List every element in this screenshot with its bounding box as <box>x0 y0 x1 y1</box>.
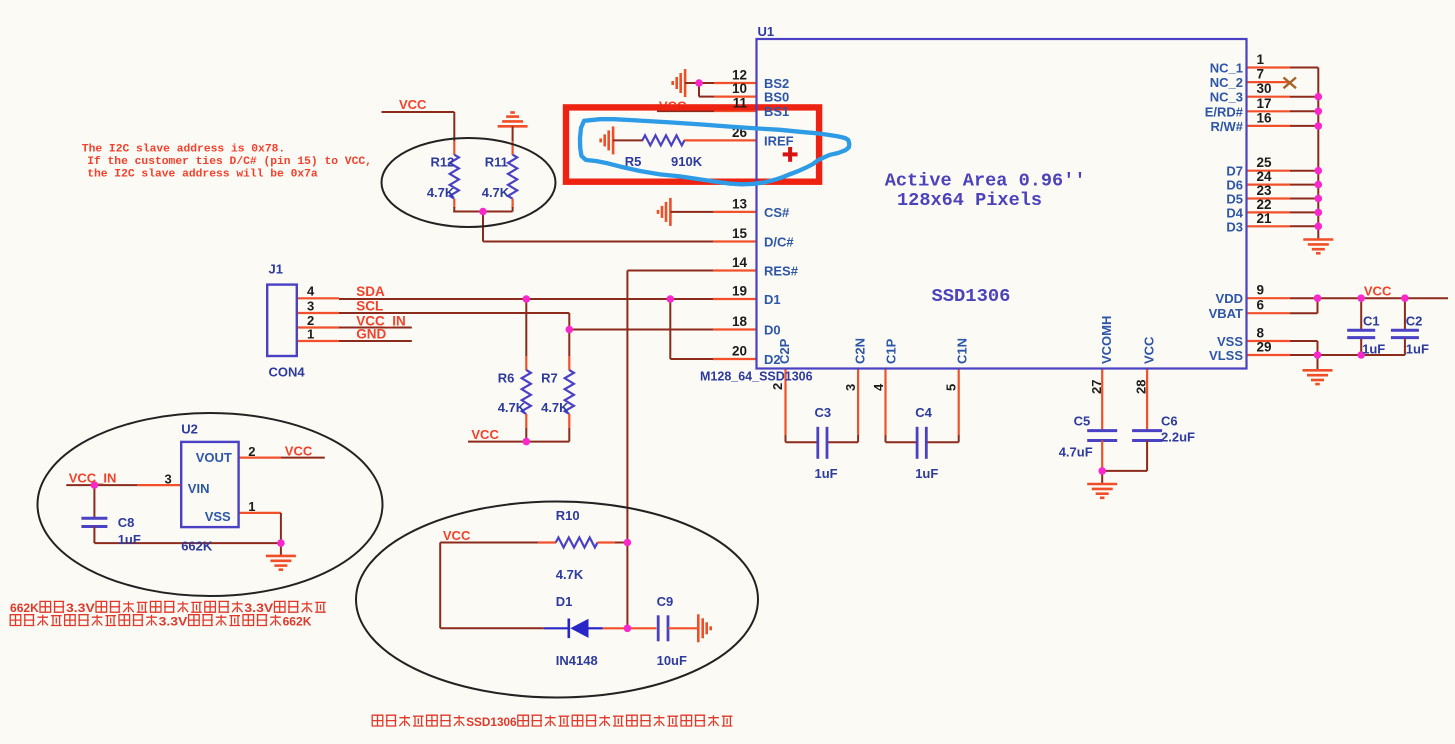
svg-text:VDD: VDD <box>1216 291 1243 306</box>
svg-text:NC_2: NC_2 <box>1210 75 1243 90</box>
svg-text:E/RD#: E/RD# <box>1205 104 1244 119</box>
svg-text:BS1: BS1 <box>764 104 789 119</box>
svg-text:J1: J1 <box>269 262 283 277</box>
svg-text:R/W#: R/W# <box>1211 119 1244 134</box>
svg-text:662K: 662K <box>10 601 39 615</box>
svg-text:RES#: RES# <box>764 264 799 279</box>
svg-text:IREF: IREF <box>764 133 794 148</box>
svg-text:VBAT: VBAT <box>1209 306 1243 321</box>
svg-text:3: 3 <box>165 472 172 487</box>
svg-text:C5: C5 <box>1074 414 1091 429</box>
svg-text:19: 19 <box>732 284 747 299</box>
svg-text:VCC: VCC <box>1364 284 1392 299</box>
svg-text:D/C#: D/C# <box>764 235 794 250</box>
svg-text:C1N: C1N <box>955 338 970 364</box>
svg-text:4.7K: 4.7K <box>482 185 510 200</box>
svg-text:M128_64_SSD1306: M128_64_SSD1306 <box>700 370 813 384</box>
svg-text:VCC: VCC <box>399 97 427 112</box>
svg-text:VLSS: VLSS <box>1209 348 1243 363</box>
svg-text:C1: C1 <box>1363 314 1380 329</box>
svg-text:21: 21 <box>1257 211 1273 226</box>
svg-text:the I2C slave address will be: the I2C slave address will be 0x7a <box>87 169 318 181</box>
svg-text:IN4148: IN4148 <box>556 653 598 668</box>
svg-text:D0: D0 <box>764 323 781 338</box>
svg-text:GND: GND <box>356 327 386 342</box>
svg-text:C2P: C2P <box>777 338 792 364</box>
svg-text:VCOMH: VCOMH <box>1099 316 1114 364</box>
svg-text:D3: D3 <box>1226 219 1243 234</box>
svg-text:CON4: CON4 <box>269 365 306 380</box>
svg-text:D6: D6 <box>1226 178 1243 193</box>
svg-text:6: 6 <box>1257 298 1265 313</box>
svg-text:VSS: VSS <box>205 509 231 524</box>
svg-text:D1: D1 <box>764 292 781 307</box>
svg-text:27: 27 <box>1089 380 1104 394</box>
svg-text:4: 4 <box>871 383 886 391</box>
svg-text:3.3V: 3.3V <box>66 601 95 615</box>
svg-text:13: 13 <box>732 196 748 211</box>
svg-text:R11: R11 <box>485 155 508 170</box>
svg-text:14: 14 <box>732 255 748 270</box>
svg-text:20: 20 <box>732 344 747 359</box>
svg-text:R10: R10 <box>556 508 580 523</box>
svg-text:128x64 Pixels: 128x64 Pixels <box>897 190 1042 211</box>
svg-text:16: 16 <box>1257 110 1273 125</box>
svg-text:29: 29 <box>1257 340 1272 355</box>
svg-text:4.7K: 4.7K <box>556 567 584 582</box>
svg-text:10uF: 10uF <box>657 653 687 668</box>
svg-text:BS0: BS0 <box>764 90 789 105</box>
svg-text:1: 1 <box>307 327 314 342</box>
svg-text:8: 8 <box>1257 326 1265 341</box>
svg-text:23: 23 <box>1257 183 1273 198</box>
svg-text:D5: D5 <box>1226 192 1243 207</box>
svg-text:VCC: VCC <box>1142 336 1157 364</box>
svg-text:1: 1 <box>1257 52 1265 67</box>
svg-text:CS#: CS# <box>764 205 790 220</box>
svg-text:U2: U2 <box>181 422 198 437</box>
svg-text:9: 9 <box>1257 283 1265 298</box>
svg-text:Active Area 0.96'': Active Area 0.96'' <box>885 171 1086 192</box>
svg-text:4: 4 <box>307 284 315 299</box>
svg-text:NC_1: NC_1 <box>1210 61 1243 76</box>
svg-text:D7: D7 <box>1226 164 1243 179</box>
svg-text:3.3V: 3.3V <box>159 614 188 628</box>
svg-text:7: 7 <box>1257 67 1265 82</box>
svg-text:VCC_IN: VCC_IN <box>69 471 117 486</box>
svg-text:910K: 910K <box>671 154 703 169</box>
svg-text:11: 11 <box>733 96 748 111</box>
svg-text:662K: 662K <box>283 614 312 628</box>
svg-text:C4: C4 <box>915 405 932 420</box>
svg-text:C2: C2 <box>1406 314 1423 329</box>
svg-text:R6: R6 <box>498 370 515 385</box>
svg-text:4.7K: 4.7K <box>541 400 569 415</box>
svg-text:24: 24 <box>1257 169 1273 184</box>
svg-text:VCC: VCC <box>471 427 499 442</box>
svg-text:17: 17 <box>1257 96 1272 111</box>
svg-text:C2N: C2N <box>853 338 868 364</box>
svg-text:1uF: 1uF <box>815 466 838 481</box>
svg-text:1uF: 1uF <box>1362 342 1385 357</box>
svg-text:662K: 662K <box>181 539 213 554</box>
svg-text:4.7uF: 4.7uF <box>1059 445 1093 460</box>
svg-text:1: 1 <box>248 499 255 514</box>
svg-text:10: 10 <box>732 81 747 96</box>
svg-text:28: 28 <box>1134 380 1149 394</box>
svg-text:5: 5 <box>944 384 959 391</box>
svg-text:1uF: 1uF <box>1406 342 1429 357</box>
svg-text:VCC: VCC <box>443 528 471 543</box>
svg-text:C3: C3 <box>815 405 832 420</box>
svg-text:3: 3 <box>843 384 858 391</box>
svg-text:18: 18 <box>732 314 748 329</box>
svg-text:SDA: SDA <box>356 284 385 299</box>
svg-text:NC_3: NC_3 <box>1210 90 1243 105</box>
svg-text:4.7K: 4.7K <box>427 185 455 200</box>
svg-text:VOUT: VOUT <box>196 450 232 465</box>
svg-text:C1P: C1P <box>884 338 899 364</box>
svg-text:30: 30 <box>1257 81 1272 96</box>
svg-text:C9: C9 <box>657 594 674 609</box>
svg-text:C8: C8 <box>118 515 135 530</box>
svg-text:SCL: SCL <box>356 299 383 314</box>
svg-text:SSD1306: SSD1306 <box>932 285 1011 307</box>
svg-text:2: 2 <box>248 444 255 459</box>
svg-text:3.3V: 3.3V <box>244 601 273 615</box>
svg-text:D1: D1 <box>556 594 573 609</box>
svg-text:2.2uF: 2.2uF <box>1161 430 1195 445</box>
svg-text:R12: R12 <box>430 155 454 170</box>
svg-text:VSS: VSS <box>1217 334 1243 349</box>
svg-text:The I2C slave address is 0x78.: The I2C slave address is 0x78. <box>82 144 285 156</box>
svg-text:VCC: VCC <box>285 444 313 459</box>
svg-text:4.7K: 4.7K <box>498 400 526 415</box>
svg-text:15: 15 <box>732 226 748 241</box>
svg-text:22: 22 <box>1257 197 1272 212</box>
svg-text:C6: C6 <box>1161 414 1178 429</box>
svg-text:U1: U1 <box>758 24 775 39</box>
svg-text:SSD1306: SSD1306 <box>466 715 517 729</box>
svg-text:1uF: 1uF <box>118 532 141 547</box>
svg-text:R7: R7 <box>541 370 558 385</box>
svg-text:3: 3 <box>307 299 314 314</box>
svg-text:VIN: VIN <box>188 481 210 496</box>
svg-text:25: 25 <box>1257 155 1273 170</box>
svg-text:D4: D4 <box>1226 205 1243 220</box>
svg-text:1uF: 1uF <box>915 466 938 481</box>
svg-text:If the customer ties D/C# (pin: If the customer ties D/C# (pin 15) to VC… <box>87 156 372 168</box>
svg-text:2: 2 <box>770 383 785 390</box>
